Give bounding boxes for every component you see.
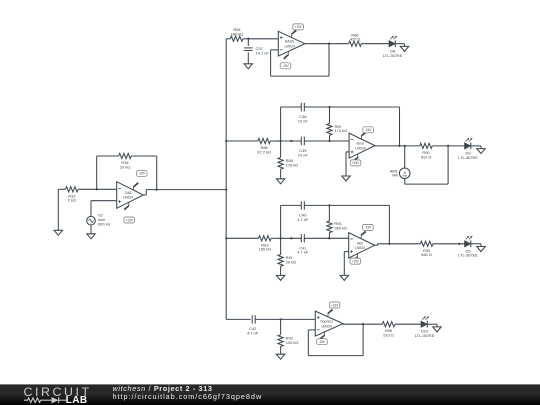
svg-text:LM324: LM324 (355, 146, 365, 150)
svg-text:510 Ω: 510 Ω (421, 154, 432, 159)
svg-text:600 Hz: 600 Hz (98, 222, 110, 227)
svg-text:-15V: -15V (282, 64, 289, 68)
svg-text:+15V: +15V (294, 25, 302, 29)
svg-text:-15V: -15V (138, 172, 145, 176)
svg-text:LTL-307EE: LTL-307EE (458, 253, 478, 258)
svg-text:LM324: LM324 (355, 246, 365, 250)
svg-text:10 kΩ: 10 kΩ (120, 164, 130, 169)
svg-text:LM324: LM324 (123, 196, 133, 200)
svg-text:10 nF: 10 nF (298, 118, 309, 123)
svg-text:4.7 nF: 4.7 nF (297, 250, 309, 255)
svg-text:Soprano: Soprano (320, 320, 333, 324)
svg-text:+15V: +15V (126, 218, 134, 222)
svg-text:14.7 nF: 14.7 nF (256, 50, 270, 55)
svg-text:+15V: +15V (352, 161, 360, 165)
svg-text:LM324: LM324 (321, 324, 331, 328)
svg-text:87.2 kΩ: 87.2 kΩ (257, 149, 271, 154)
svg-text:BASS: BASS (285, 40, 295, 44)
svg-text:LAB: LAB (66, 395, 88, 405)
svg-text:+15V: +15V (352, 259, 360, 263)
svg-text:100 kΩ: 100 kΩ (286, 340, 299, 345)
svg-text:NA: NA (392, 173, 398, 178)
svg-text:178 kΩ: 178 kΩ (286, 162, 299, 167)
svg-text:2 kΩ: 2 kΩ (68, 198, 76, 203)
svg-text:180 kΩ: 180 kΩ (231, 31, 244, 36)
svg-text:LTL-307EE: LTL-307EE (415, 333, 435, 338)
svg-text:Alto: Alto (357, 241, 363, 245)
svg-text:LM324: LM324 (284, 44, 294, 48)
svg-text:LTL-307EE: LTL-307EE (383, 53, 403, 58)
svg-text:-15V: -15V (365, 226, 372, 230)
svg-text:-15V: -15V (319, 340, 326, 344)
svg-text:174 kΩ: 174 kΩ (335, 128, 348, 133)
svg-text:360 kΩ: 360 kΩ (334, 226, 347, 231)
svg-text:4.7 nF: 4.7 nF (297, 217, 309, 222)
svg-text:http://circuitlab.com/c66gf73q: http://circuitlab.com/c66gf73qpe8dw (113, 392, 263, 401)
svg-text:4.7 nF: 4.7 nF (247, 330, 259, 335)
svg-text:10 nF: 10 nF (298, 152, 309, 157)
svg-text:510 Ω: 510 Ω (383, 333, 394, 338)
svg-text:185 kΩ: 185 kΩ (259, 247, 272, 252)
svg-text:LTL-307EE: LTL-307EE (458, 155, 478, 160)
svg-text:29 kΩ: 29 kΩ (286, 260, 296, 265)
svg-text:+15V: +15V (331, 303, 339, 307)
svg-text:470 Ω: 470 Ω (350, 37, 361, 42)
svg-text:-15V: -15V (365, 128, 372, 132)
svg-text:tenor: tenor (357, 142, 366, 146)
svg-text:OA8: OA8 (125, 191, 132, 195)
svg-text:560 Ω: 560 Ω (421, 252, 432, 257)
